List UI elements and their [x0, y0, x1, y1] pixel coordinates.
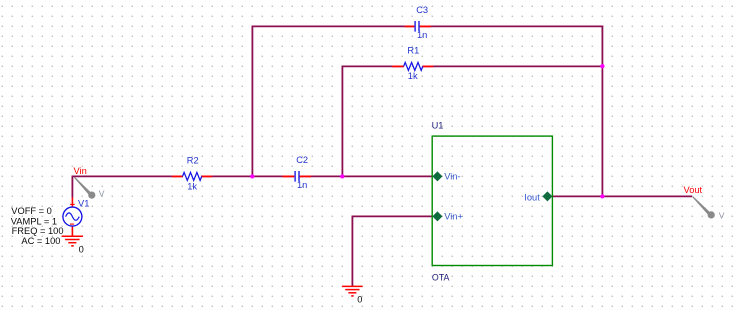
- resistor R2: [172, 156, 212, 192]
- junction: R1 branch on Vin net: [340, 174, 344, 178]
- wire: Vin+ horizontal (y=216): [352, 215, 432, 217]
- capacitor C2: [283, 155, 312, 190]
- voltage source V1: [63, 197, 89, 236]
- svg-text:C3: C3: [416, 5, 428, 15]
- wire: Vin+ ground vertical (x=352): [351, 216, 353, 287]
- svg-text:Vin-: Vin-: [444, 171, 460, 181]
- wire: main horizontal net Vin (y=176): [72, 175, 184, 177]
- svg-text:R1: R1: [407, 46, 419, 56]
- svg-text:V: V: [99, 189, 105, 199]
- voltage probe at Vin: [74, 177, 105, 199]
- svg-text:VOFF = 0: VOFF = 0: [11, 206, 52, 216]
- wire: R1 horizontal (y=66): [342, 65, 404, 67]
- svg-text:Iout: Iout: [524, 192, 540, 202]
- voltage probe at Vout: [692, 196, 725, 220]
- wire: C3 loop left vertical (x=252): [251, 26, 253, 178]
- wire: R1 branch vertical (x=342): [341, 66, 343, 178]
- svg-text:0: 0: [79, 244, 84, 254]
- svg-text:1n: 1n: [297, 180, 307, 190]
- svg-text:Vin: Vin: [74, 166, 87, 176]
- svg-text:R2: R2: [187, 156, 199, 166]
- pin Iout: [524, 191, 552, 202]
- wire: top horizontal through C3 (y=26): [252, 25, 415, 27]
- ground (U1 Vin+), node 0: [342, 286, 363, 296]
- capacitor C3: [405, 5, 431, 40]
- svg-text:U1: U1: [432, 120, 444, 130]
- resistor R1: [392, 46, 433, 82]
- junction: C3 branch on Vin net: [250, 174, 254, 178]
- wire: right vertical (x=602.4): [601, 26, 603, 198]
- svg-text:FREQ = 100: FREQ = 100: [12, 226, 64, 236]
- wire: Iout horizontal (y=197): [552, 195, 692, 197]
- svg-text:AC = 100: AC = 100: [21, 236, 60, 246]
- svg-text:V1: V1: [78, 198, 89, 208]
- junction: R1 to feedback vertical: [600, 64, 604, 68]
- pin Vin+: [432, 211, 463, 221]
- svg-text:1k: 1k: [187, 181, 197, 191]
- pin Vin-: [432, 171, 460, 181]
- svg-text:1n: 1n: [417, 30, 427, 40]
- svg-text:OTA: OTA: [432, 273, 450, 283]
- op-amp U1 (OTA box): [432, 120, 553, 282]
- junction: feedback vertical on Iout net: [600, 194, 604, 198]
- svg-text:0: 0: [357, 294, 362, 304]
- ground (V1), node 0: [62, 236, 83, 246]
- svg-text:C2: C2: [296, 155, 308, 165]
- svg-text:Vout: Vout: [684, 185, 703, 195]
- svg-text:1k: 1k: [408, 71, 418, 81]
- V1 parameter text: [11, 206, 64, 246]
- wire: source vertical at x=72: [71, 176, 73, 198]
- svg-text:V: V: [719, 211, 725, 221]
- svg-text:Vin+: Vin+: [444, 211, 463, 221]
